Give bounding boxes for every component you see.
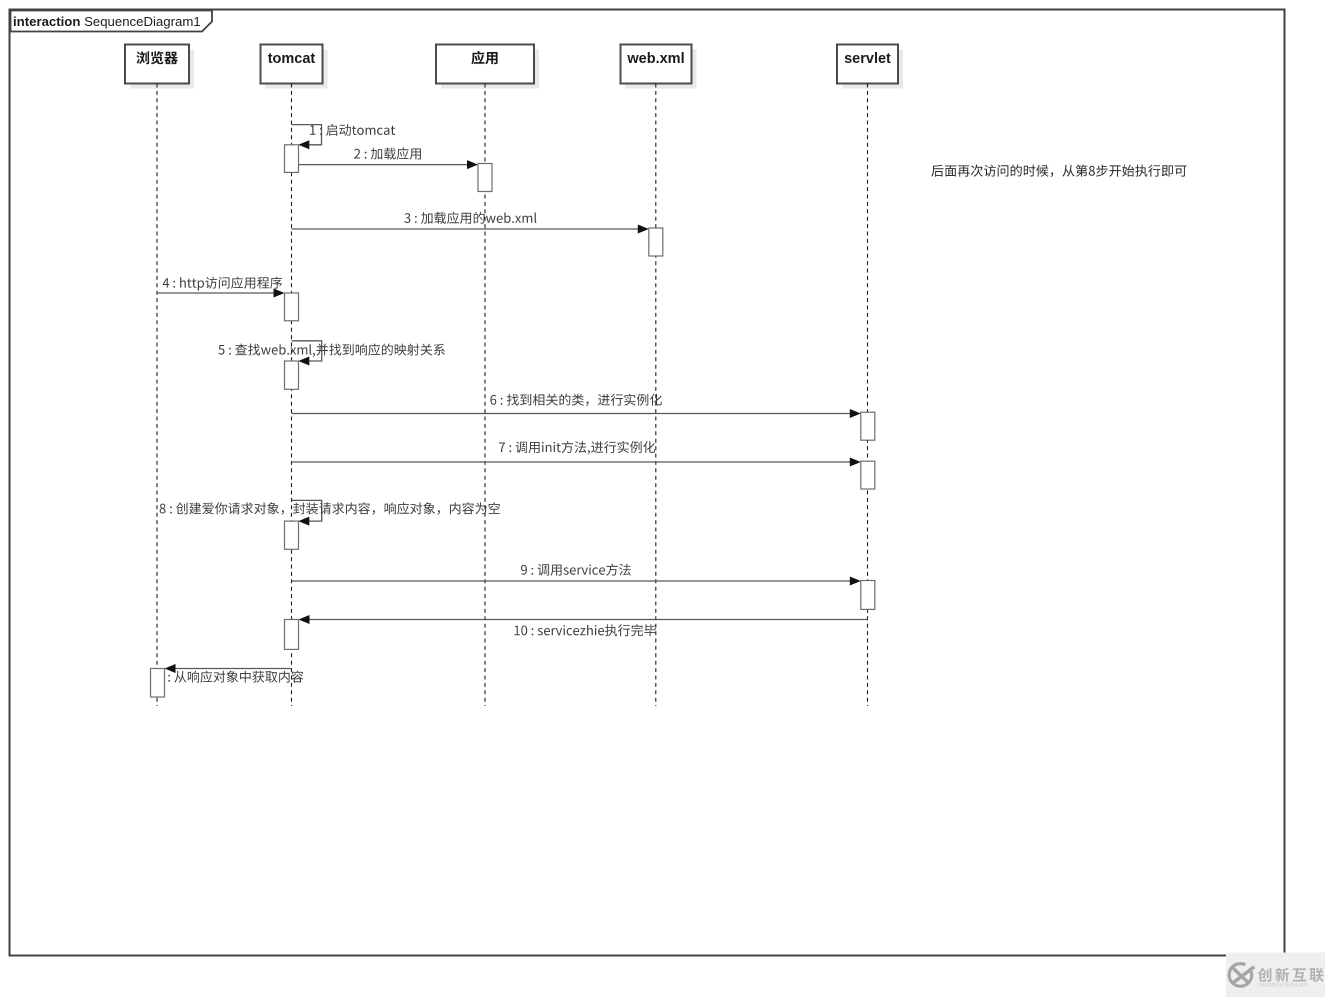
svg-text:CHUANGXINHULIAN: CHUANGXINHULIAN <box>1257 983 1308 989</box>
svg-text:interaction SequenceDiagram1: interaction SequenceDiagram1 <box>13 14 201 29</box>
svg-text:web.xml: web.xml <box>626 51 684 67</box>
svg-text:servlet: servlet <box>844 51 891 67</box>
svg-text:tomcat: tomcat <box>268 51 316 67</box>
